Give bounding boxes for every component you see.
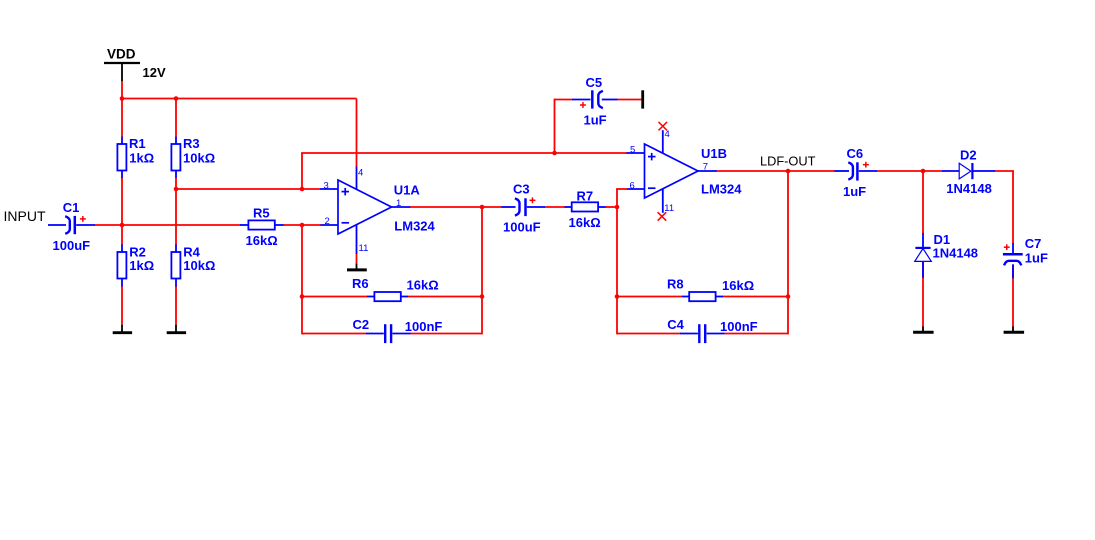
ground at D1 — [913, 327, 934, 333]
wire U1B output feedback drop x=788 — [787, 171, 789, 334]
svg-text:10kΩ: 10kΩ — [183, 150, 215, 165]
wire R3 bottom to divider node — [175, 178, 177, 190]
svg-text:1N4148: 1N4148 — [933, 246, 979, 261]
resistor R6 — [367, 292, 408, 301]
resistor R2 — [117, 245, 126, 287]
svg-text:C3: C3 — [513, 182, 530, 197]
wire pin3 junction riser x=302 — [301, 153, 303, 189]
ground at R4 — [167, 325, 186, 333]
junction U1A output tap — [480, 205, 485, 210]
svg-text:4: 4 — [665, 129, 670, 140]
svg-text:16kΩ: 16kΩ — [246, 233, 278, 248]
resistor R3 — [171, 137, 180, 178]
svg-text:R8: R8 — [667, 276, 684, 291]
polarity plus of C6 — [863, 162, 869, 168]
svg-text:D2: D2 — [960, 147, 977, 162]
wire C7 bottom to ground — [1012, 265, 1014, 327]
U1A pin1 output stub — [391, 206, 411, 208]
ground at U1A pin11 — [347, 264, 367, 270]
wire y=153 run to U1B pin5 — [301, 152, 627, 154]
wire R1 bottom to input line — [121, 178, 123, 226]
U1A pin3 stub — [320, 188, 338, 190]
svg-text:R5: R5 — [253, 206, 270, 221]
wire C4 line right segment — [725, 333, 789, 335]
wire C6 to D1 node — [877, 170, 943, 172]
capacitor C5 (polarized, mirrored) — [572, 90, 618, 108]
svg-text:1uF: 1uF — [1025, 250, 1048, 265]
svg-text:C2: C2 — [353, 317, 370, 332]
wire R5 right to U1A pin2 — [283, 224, 321, 226]
wire R2 bottom to ground — [121, 286, 123, 325]
svg-text:C4: C4 — [667, 317, 684, 332]
junction U1B pin6 tap — [615, 205, 620, 210]
junction R6 right — [480, 294, 485, 299]
svg-text:12V: 12V — [143, 65, 166, 80]
svg-text:LM324: LM324 — [701, 181, 742, 196]
svg-text:C6: C6 — [847, 146, 864, 161]
wire R8 line left segment y=296.5 — [617, 296, 683, 298]
junction VDD-R3 — [174, 96, 179, 101]
wire R2 column (input line to R2 top) — [121, 225, 123, 245]
ground at C7 — [1004, 327, 1025, 333]
svg-text:16kΩ: 16kΩ — [407, 277, 439, 292]
svg-text:100nF: 100nF — [405, 319, 443, 334]
wire U1A pin4 supply drop x=356.5 — [356, 99, 358, 168]
svg-text:1uF: 1uF — [584, 112, 607, 127]
svg-text:1uF: 1uF — [843, 184, 866, 199]
polarity plus of C5 — [580, 102, 586, 108]
resistor R1 — [117, 137, 126, 178]
junction C5 branch on pin5 line — [552, 151, 557, 156]
U1B pin4 stub — [662, 130, 664, 153]
polarity plus of C1 — [80, 216, 86, 222]
diode D2 — [942, 163, 995, 179]
op-amp U1B — [627, 130, 717, 213]
svg-text:100uF: 100uF — [53, 238, 91, 253]
svg-text:U1A: U1A — [394, 182, 421, 197]
junction R8 right — [786, 294, 791, 299]
U1A pin2 stub — [321, 224, 339, 226]
svg-text:R7: R7 — [577, 189, 594, 204]
capacitor C1 (polarized) — [48, 216, 95, 234]
C5 open terminal bar — [641, 90, 644, 108]
wire U1A pin11 to ground — [356, 254, 358, 264]
svg-text:R3: R3 — [183, 136, 200, 151]
svg-text:R1: R1 — [129, 136, 146, 151]
polarity plus of C7 — [1004, 244, 1010, 250]
wire C3 to R7 — [545, 206, 566, 208]
U1B pin7 output stub — [697, 170, 717, 172]
U1B pin5 stub — [627, 152, 645, 154]
U1A pin4 stub — [356, 167, 358, 190]
svg-text:4: 4 — [358, 168, 363, 179]
svg-text:VDD: VDD — [107, 47, 136, 62]
wire R8 line right segment — [723, 296, 789, 298]
wire U1B inverting column x=617 — [616, 189, 618, 334]
junction LDF-OUT feedback tap — [786, 169, 791, 174]
wire U1B output to C6 (LDF-OUT net) — [717, 170, 836, 172]
svg-text:LM324: LM324 — [394, 219, 435, 234]
wire R1 column upper (VDD bus to R1 top) — [121, 99, 123, 138]
wire U1A inverting feedback drop x=302 — [301, 225, 303, 334]
junction input-R1/R2 — [120, 223, 125, 228]
svg-text:7: 7 — [703, 161, 708, 172]
wire VDD bus y=98.5 from R1 top to U1A pin4 column — [121, 98, 356, 100]
node VDD power port stem (red part) — [121, 81, 123, 100]
power port VDD (bar + stem) — [104, 63, 140, 81]
wire divider node down through input line to R4 top — [175, 189, 177, 245]
svg-text:1kΩ: 1kΩ — [129, 150, 154, 165]
svg-text:16kΩ: 16kΩ — [569, 215, 601, 230]
wire D1 anode drop x=923 — [922, 171, 924, 234]
capacitor C6 (polarized) — [835, 162, 878, 180]
capacitor C2 — [366, 324, 411, 343]
U1B pin11 stub — [662, 189, 664, 213]
wire input line C1 to R5 — [94, 224, 241, 226]
no-connect X on U1B pin11 — [658, 212, 667, 221]
wire D1 bottom to ground — [922, 262, 924, 327]
U1B pin6 stub — [628, 188, 645, 190]
svg-text:C5: C5 — [586, 75, 603, 90]
wire D2 cathode to output corner — [995, 170, 1014, 172]
wire C4 line left segment y=333.5 — [617, 333, 681, 335]
wire C2 line right segment — [410, 333, 482, 335]
capacitor C3 (polarized) — [502, 198, 546, 216]
svg-text:3: 3 — [324, 180, 329, 191]
U1A pin11 stub — [356, 225, 358, 254]
junction D1 tap — [921, 169, 926, 174]
resistor R4 — [171, 245, 180, 287]
wire R7 right to pin6 junction — [605, 206, 618, 208]
wire divider node to U1A pin3 y=189 — [176, 188, 320, 190]
wire U1A output to C3 — [410, 206, 503, 208]
no-connect X on U1B pin4 — [659, 122, 668, 130]
wire U1B pin6 horizontal jog — [616, 188, 628, 190]
svg-text:100uF: 100uF — [503, 219, 541, 234]
svg-text:1N4148: 1N4148 — [946, 181, 992, 196]
wire C5 right to terminal bar — [618, 99, 642, 101]
wire C5 left lead run y=99.5 — [555, 99, 573, 101]
resistor R8 — [682, 292, 723, 301]
wire U1A output feedback drop x=482 — [481, 207, 483, 334]
svg-text:1: 1 — [396, 198, 401, 209]
junction R6 left — [300, 294, 305, 299]
svg-text:LDF-OUT: LDF-OUT — [760, 154, 816, 169]
wire R4 bottom to ground — [175, 286, 177, 325]
svg-text:1kΩ: 1kΩ — [129, 258, 154, 273]
svg-text:16kΩ: 16kΩ — [722, 278, 754, 293]
junction divider node R3/R4 pin3 — [174, 187, 179, 192]
junction R8 left — [615, 294, 620, 299]
junction pin2 feedback tap — [300, 223, 305, 228]
wire output corner drop x=1013 to C7 — [1012, 171, 1014, 244]
svg-text:10kΩ: 10kΩ — [183, 258, 215, 273]
wire C5 branch riser x=554.5 — [554, 99, 556, 153]
diode D1 (cathode up) — [915, 233, 932, 278]
junction pin3 riser — [300, 187, 305, 192]
resistor R7 — [565, 202, 606, 211]
wire R6 line left segment y=296.5 — [301, 296, 367, 298]
svg-text:C7: C7 — [1025, 236, 1042, 251]
svg-text:C1: C1 — [63, 200, 80, 215]
svg-text:6: 6 — [630, 180, 635, 191]
resistor R5 — [240, 220, 284, 229]
svg-text:100nF: 100nF — [720, 319, 758, 334]
ground at R2 — [113, 325, 132, 333]
wire R3 column upper (VDD bus to R3 top) — [175, 99, 177, 138]
capacitor C4 — [680, 324, 725, 343]
wire R6 line right segment — [408, 296, 483, 298]
svg-text:5: 5 — [630, 144, 635, 155]
svg-text:2: 2 — [325, 216, 330, 227]
polarity plus of C3 — [530, 197, 536, 203]
junction VDD-R1 — [120, 96, 125, 101]
svg-text:11: 11 — [664, 203, 674, 214]
svg-text:11: 11 — [359, 243, 369, 254]
svg-text:R6: R6 — [352, 276, 369, 291]
capacitor C7 (polarized, vertical) — [1003, 243, 1023, 278]
wire C2 line left segment y=333.5 — [302, 333, 367, 335]
op-amp U1A — [320, 167, 410, 255]
svg-text:INPUT: INPUT — [4, 208, 46, 224]
svg-text:U1B: U1B — [701, 146, 727, 161]
